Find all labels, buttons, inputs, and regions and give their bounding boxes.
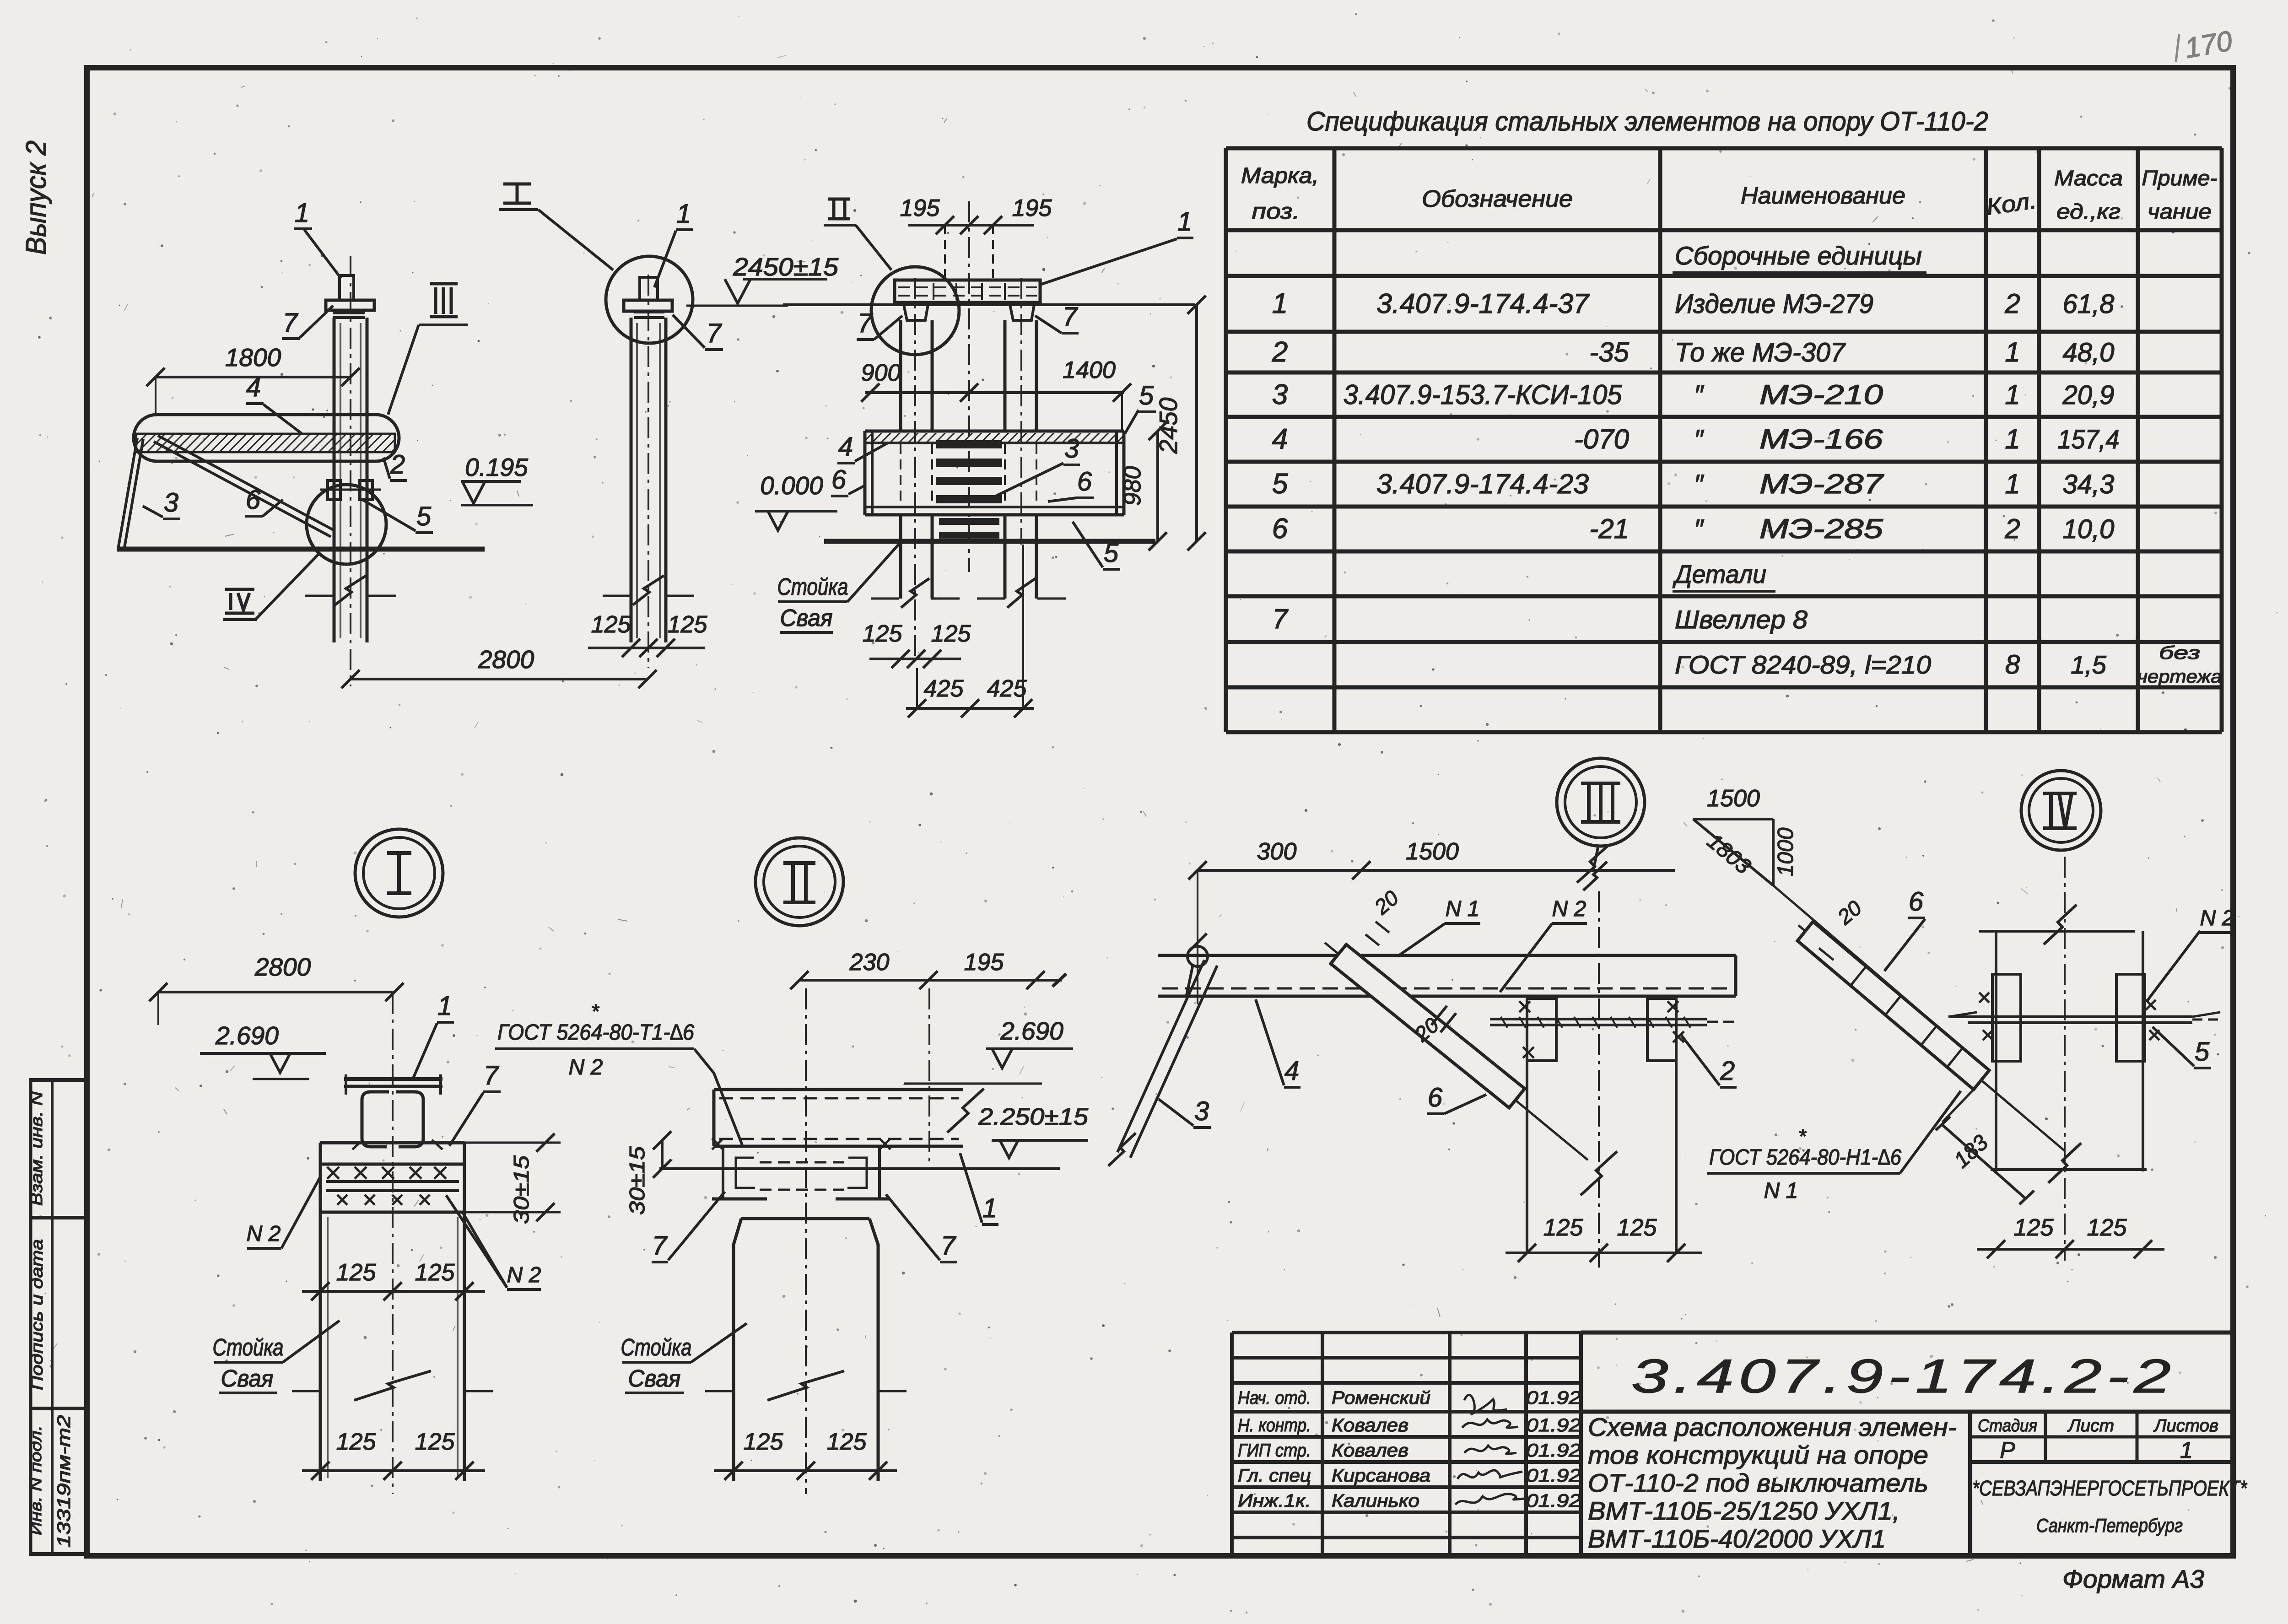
svg-text:34,3: 34,3 [2063,469,2115,499]
svg-text:125: 125 [744,1429,784,1455]
svg-text:300: 300 [1257,838,1297,865]
svg-text:Нач. отд.: Нач. отд. [1238,1388,1311,1408]
svg-text:1: 1 [1272,288,1288,319]
svg-text:30±15: 30±15 [509,1155,533,1224]
svg-text:*: * [1798,1125,1807,1148]
svg-text:48,0: 48,0 [2063,338,2115,367]
svg-text:поз.: поз. [1252,200,1300,224]
svg-text:N 2: N 2 [1552,897,1586,921]
svg-text:7: 7 [484,1061,500,1090]
svg-text:Изделие МЭ-279: Изделие МЭ-279 [1675,289,1873,319]
svg-text:2: 2 [390,450,405,480]
svg-text:6: 6 [1272,513,1288,545]
svg-text:Детали: Детали [1672,560,1766,588]
svg-text:1: 1 [2005,379,2020,410]
svg-text:125: 125 [2087,1214,2127,1241]
svg-text:125: 125 [336,1259,377,1286]
svg-text:1: 1 [1177,207,1192,237]
svg-text:125: 125 [931,620,971,647]
svg-text:Наименование: Наименование [1741,183,1905,209]
svg-text:2.690: 2.690 [215,1021,279,1050]
svg-text:То же МЭ-307: То же МЭ-307 [1675,338,1846,367]
svg-text:7: 7 [652,1231,668,1261]
svg-text:20,9: 20,9 [2062,380,2115,410]
svg-text:Стойка: Стойка [213,1334,284,1361]
svg-text:900: 900 [861,360,901,386]
svg-text:Подпись и дата: Подпись и дата [27,1239,46,1390]
svg-text:7: 7 [858,308,874,338]
svg-text:1500: 1500 [1406,838,1459,865]
svg-text:3.407.9-153.7-КСИ-105: 3.407.9-153.7-КСИ-105 [1344,379,1623,410]
svg-text:Выпуск 2: Выпуск 2 [21,140,52,255]
svg-text:Инв. N подл.: Инв. N подл. [27,1425,45,1535]
svg-text:1: 1 [2005,337,2020,367]
svg-text:01.92: 01.92 [1526,1441,1581,1461]
svg-text:7: 7 [941,1231,957,1261]
svg-text:5: 5 [1104,538,1119,568]
svg-text:N 2: N 2 [247,1222,281,1246]
svg-text:1400: 1400 [1063,357,1116,383]
svg-text:5: 5 [1139,381,1154,410]
svg-text:1: 1 [295,198,309,228]
svg-text:5: 5 [1272,468,1288,500]
svg-text:7: 7 [1063,302,1079,332]
svg-text:125: 125 [591,611,631,638]
svg-text:2: 2 [2004,288,2020,319]
svg-text:Санкт-Петербург: Санкт-Петербург [2036,1515,2183,1536]
svg-text:Кирсанова: Кирсанова [1332,1466,1430,1486]
svg-text:1000: 1000 [1774,827,1798,876]
svg-text:125: 125 [827,1429,867,1455]
svg-text:ВМТ-110Б-25/1250 УХЛ1,: ВМТ-110Б-25/1250 УХЛ1, [1588,1496,1900,1525]
svg-text:ВМТ-110Б-40/2000 УХЛ1: ВМТ-110Б-40/2000 УХЛ1 [1588,1524,1886,1553]
svg-text:1800: 1800 [225,343,281,372]
svg-text:1: 1 [676,199,691,229]
svg-text:1,5: 1,5 [2071,650,2107,679]
svg-text:*: * [591,1000,599,1023]
svg-text:3: 3 [164,488,178,518]
svg-text:без: без [2159,643,2200,663]
svg-text:425: 425 [987,675,1027,702]
svg-text:7: 7 [283,308,299,338]
svg-text:Схема расположения элемен-: Схема расположения элемен- [1588,1413,1957,1441]
svg-text:195: 195 [964,949,1004,976]
svg-text:ОТ-110-2 под выключатель: ОТ-110-2 под выключатель [1588,1468,1928,1497]
svg-text:01.92: 01.92 [1526,1466,1581,1486]
svg-text:-070: -070 [1574,424,1629,454]
svg-text:125: 125 [415,1259,455,1286]
svg-text:ГОСТ 8240-89, l=210: ГОСТ 8240-89, l=210 [1675,650,1931,679]
svg-text:Свая: Свая [221,1365,274,1392]
svg-text:1: 1 [2005,424,2020,454]
svg-text:2450±15: 2450±15 [733,253,839,281]
svg-text:3.407.9-174.4-37: 3.407.9-174.4-37 [1376,288,1590,319]
svg-text:13319пм-т2: 13319пм-т2 [54,1415,74,1548]
svg-text:2: 2 [1720,1056,1735,1086]
svg-text:N 1: N 1 [1446,897,1480,921]
svg-text:3: 3 [1272,379,1288,410]
svg-text:N 2: N 2 [507,1263,541,1287]
svg-text:Свая: Свая [628,1365,681,1392]
svg-text:Лист: Лист [2067,1416,2114,1435]
svg-text:Масса: Масса [2054,166,2123,190]
svg-text:125: 125 [1543,1214,1584,1241]
svg-text:125: 125 [668,611,708,638]
svg-text:Взам. инв. N: Взам. инв. N [27,1091,46,1206]
svg-text:01.92: 01.92 [1526,1415,1581,1435]
svg-text:чание: чание [2148,200,2212,223]
svg-text:01.92: 01.92 [1526,1388,1581,1408]
svg-text:1: 1 [982,1193,997,1223]
svg-text:1: 1 [2180,1437,2193,1463]
svg-text:N 2: N 2 [569,1055,603,1079]
svg-text:ГИП стр.: ГИП стр. [1238,1441,1311,1461]
svg-text:01.92: 01.92 [1526,1491,1581,1511]
svg-text:ГОСТ 5264-80-Т1-∆6: ГОСТ 5264-80-Т1-∆6 [497,1020,694,1045]
svg-text:30±15: 30±15 [625,1146,649,1215]
svg-text:чертежа: чертежа [2137,667,2222,687]
svg-text:″: ″ [1694,469,1705,499]
svg-text:3: 3 [1194,1096,1209,1126]
svg-text:6: 6 [1909,887,1924,917]
svg-text:2800: 2800 [478,645,534,674]
svg-text:5: 5 [2195,1037,2210,1067]
svg-text:125: 125 [2014,1214,2054,1241]
svg-text:7: 7 [707,318,723,348]
svg-text:2: 2 [2004,513,2020,544]
svg-text:Листов: Листов [2153,1416,2218,1435]
svg-text:″: ″ [1694,425,1705,454]
svg-text:-35: -35 [1589,337,1629,367]
svg-text:N 2: N 2 [2200,906,2234,930]
svg-text:0.000: 0.000 [760,471,823,500]
svg-text:Свая: Свая [780,605,833,631]
svg-text:125: 125 [415,1429,455,1455]
svg-text:125: 125 [1617,1214,1657,1241]
svg-text:Стойка: Стойка [621,1334,692,1361]
svg-text:МЭ-287: МЭ-287 [1759,469,1884,499]
svg-text:1: 1 [2005,469,2020,499]
svg-text:6: 6 [831,465,847,495]
svg-text:Формат А3: Формат А3 [2062,1565,2204,1593]
svg-text:3: 3 [1064,434,1079,464]
svg-text:2: 2 [1272,336,1288,368]
svg-text:МЭ-285: МЭ-285 [1759,513,1883,544]
svg-text:2.690: 2.690 [1000,1017,1063,1045]
svg-text:Ковалев: Ковалев [1332,1415,1408,1435]
svg-text:N 1: N 1 [1764,1179,1798,1203]
svg-text:Приме-: Приме- [2142,166,2218,190]
svg-text:Марка,: Марка, [1241,164,1319,188]
svg-text:3.407.9-174.4-23: 3.407.9-174.4-23 [1376,469,1589,499]
svg-text:1500: 1500 [1707,785,1760,812]
svg-text:Швеллер 8: Швеллер 8 [1675,605,1808,634]
svg-text:980: 980 [1119,466,1146,506]
svg-text:157,4: 157,4 [2058,425,2120,454]
svg-text:7: 7 [1272,604,1289,634]
svg-text:4: 4 [1272,423,1288,455]
svg-text:6: 6 [1077,467,1092,496]
svg-text:4: 4 [1284,1056,1299,1086]
svg-text:Калинько: Калинько [1332,1491,1419,1511]
svg-text:2800: 2800 [254,953,311,981]
svg-text:Инж.1к.: Инж.1к. [1238,1491,1311,1511]
svg-text:тов конструкций на опоре: тов конструкций на опоре [1588,1441,1928,1469]
svg-text:2.250±15: 2.250±15 [978,1104,1089,1130]
svg-text:Гл. спец: Гл. спец [1238,1466,1311,1486]
svg-text:″: ″ [1694,514,1705,544]
svg-text:Обозначение: Обозначение [1422,186,1573,212]
svg-text:3.407.9-174.2-2: 3.407.9-174.2-2 [1631,1350,2176,1403]
svg-text:МЭ-166: МЭ-166 [1759,424,1883,454]
svg-text:Сборочные единицы: Сборочные единицы [1675,241,1922,270]
svg-text:5: 5 [416,502,432,531]
svg-text:Спецификация стальных элементо: Спецификация стальных элементов на опору… [1306,107,1988,136]
svg-text:1: 1 [437,991,452,1021]
svg-text:″: ″ [1694,380,1705,410]
svg-text:Н. контр.: Н. контр. [1238,1415,1311,1435]
svg-text:Р: Р [2000,1437,2015,1463]
svg-text:195: 195 [900,195,940,221]
svg-text:10,0: 10,0 [2063,514,2115,544]
svg-text:ГОСТ 5264-80-Н1-∆6: ГОСТ 5264-80-Н1-∆6 [1709,1145,1901,1170]
svg-text:425: 425 [924,675,964,702]
svg-text:ед.,кг: ед.,кг [2056,200,2121,223]
svg-text:125: 125 [863,620,903,647]
svg-text:4: 4 [838,432,853,462]
svg-text:230: 230 [849,949,890,976]
svg-text:8: 8 [2005,650,2020,680]
svg-text:6: 6 [246,485,261,515]
svg-text:125: 125 [336,1429,377,1455]
svg-text:Стадия: Стадия [1978,1416,2037,1435]
svg-text:*СЕВЗАПЭНЕРГОСЕТЬПРОЕКТ*: *СЕВЗАПЭНЕРГОСЕТЬПРОЕКТ* [1972,1476,2248,1500]
svg-text:6: 6 [1428,1083,1443,1112]
svg-text:Стойка: Стойка [777,574,848,600]
svg-text:МЭ-210: МЭ-210 [1759,379,1883,410]
svg-text:195: 195 [1012,195,1052,221]
svg-text:Ковалев: Ковалев [1332,1441,1408,1461]
svg-text:61,8: 61,8 [2063,289,2115,319]
svg-text:-21: -21 [1589,513,1629,544]
svg-text:Роменский: Роменский [1332,1388,1430,1408]
svg-text:0.195: 0.195 [465,453,528,481]
